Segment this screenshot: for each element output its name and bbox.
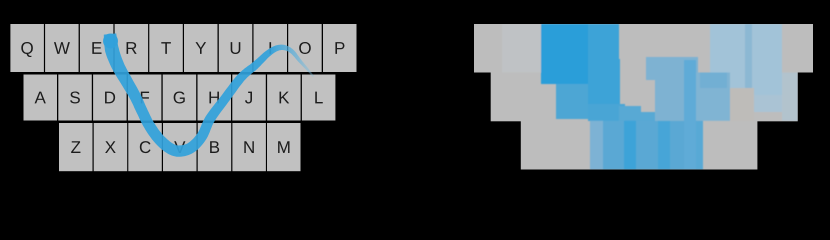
- heat K-L gray lower: [754, 112, 782, 121]
- key L: [302, 75, 336, 121]
- key V: [163, 123, 197, 171]
- key K: [267, 75, 301, 121]
- key H: [198, 75, 232, 121]
- key C: [128, 123, 162, 171]
- heat L very light: [782, 73, 798, 121]
- key E: [80, 24, 114, 72]
- right keyboard bottom row slab: [521, 120, 758, 169]
- heat J deeper sub: [700, 73, 727, 89]
- key R: [115, 24, 149, 72]
- key X: [94, 123, 128, 171]
- key A: [24, 75, 58, 121]
- heat H block upper: [646, 57, 698, 80]
- heat R strong-medium top: [588, 24, 619, 59]
- key M: [267, 123, 301, 171]
- heat D medium: [556, 84, 588, 119]
- heat F lower medium: [588, 104, 625, 121]
- key Z: [59, 123, 93, 171]
- key J: [232, 75, 265, 121]
- heat tall strip H-B: [684, 60, 696, 170]
- heat O light: [752, 24, 782, 95]
- heat C medium: [603, 121, 624, 170]
- key W: [45, 24, 79, 72]
- key D: [93, 75, 127, 121]
- key P: [323, 24, 357, 72]
- heat J block: [696, 73, 730, 121]
- key Y: [184, 24, 218, 72]
- key Q: [10, 24, 44, 72]
- key O: [288, 24, 322, 72]
- heat V deeper strip: [658, 121, 670, 170]
- heat K gray patch: [730, 88, 754, 121]
- key T: [149, 24, 183, 72]
- gesture swipe path: [104, 33, 314, 156]
- key N: [232, 123, 266, 171]
- heat B right strip: [696, 121, 703, 170]
- gesture start blob: [103, 34, 118, 49]
- key G: [163, 75, 197, 121]
- heat E strong: [541, 24, 588, 84]
- heat G lower right sliver: [635, 112, 655, 121]
- key S: [58, 75, 92, 121]
- heat B medium: [670, 121, 684, 170]
- key F: [128, 75, 161, 121]
- key U: [219, 24, 253, 72]
- heat C-V strong strip: [624, 121, 636, 170]
- heat W faint: [502, 24, 542, 73]
- key I: [254, 24, 288, 72]
- heat O lower light: [754, 95, 782, 112]
- heat V medium: [636, 121, 658, 170]
- heat R-F strong-medium tall: [588, 59, 620, 104]
- key B: [198, 123, 232, 171]
- heat H block lower: [655, 80, 698, 121]
- heat C left light: [590, 121, 603, 170]
- heat G lower: [619, 106, 641, 121]
- heat I light: [710, 24, 745, 88]
- heat I-O overlap strip: [745, 24, 752, 88]
- right keyboard middle row slab: [491, 72, 798, 121]
- right keyboard top row slab: [474, 24, 813, 73]
